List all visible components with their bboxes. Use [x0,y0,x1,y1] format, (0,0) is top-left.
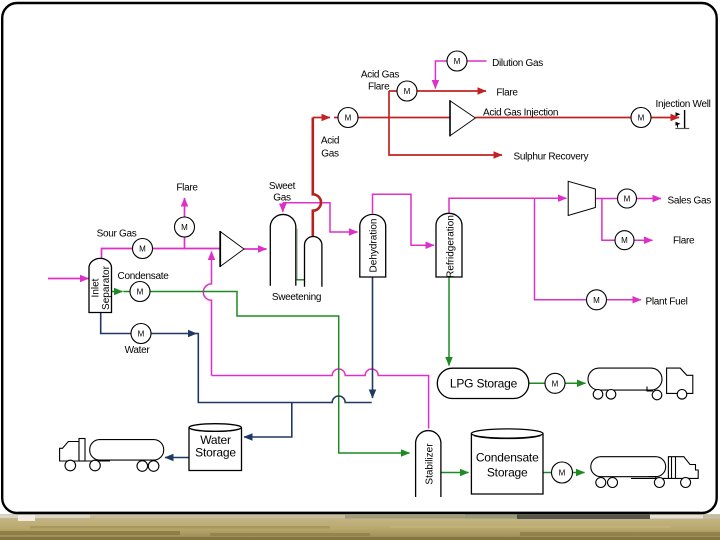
svg-text:Sweet: Sweet [269,181,296,192]
wire: branch to water storage [244,403,292,438]
wire: compressor outlet to sweetening [244,248,267,250]
wire: dilution gas line [435,61,486,89]
vessel: stabilizer [416,431,441,497]
meter M: condensate loading [552,462,573,483]
vessel: sweetening regenerator [305,237,322,287]
svg-text:Water: Water [125,345,151,356]
meter M: LPG loading [545,373,565,393]
wire: flare branch up [184,198,186,249]
wire: acid flare riser / sulphur recovery [389,91,502,155]
svg-text:Gas: Gas [321,149,339,160]
truck: LPG tanker (facing right) [588,368,693,400]
wire: sour gas line to compressor [102,249,221,262]
vessel: dehydration [360,214,386,277]
svg-text:Sour Gas: Sour Gas [97,229,137,240]
meter M: plant fuel [587,290,607,310]
wire: plant fuel branch [535,198,642,300]
wire: dehydration drain [372,277,374,398]
wire: dehydration overhead to refrigeration [373,194,435,245]
svg-text:Condensate: Condensate [476,451,539,465]
wire: recycle riser with hop over condensate [203,252,211,376]
truck: condensate tanker (facing right) [591,457,698,488]
svg-text:M: M [624,195,631,204]
wire: acid gas flare header [389,90,486,92]
svg-text:M: M [181,223,188,232]
background photo strip (grass field) [0,514,720,540]
svg-text:Dilution Gas: Dilution Gas [492,58,543,69]
wire: sales gas outlet [595,198,661,200]
svg-text:Sales Gas: Sales Gas [668,196,712,207]
compressor: sales gas [568,181,595,215]
wire: flare branch from sales line [602,199,653,241]
svg-text:Refridgeration: Refridgeration [446,215,457,278]
svg-text:Injection Well: Injection Well [656,99,711,110]
vessel: sweetening contactor [270,214,296,285]
vessel: inlet separator [89,258,112,312]
wire: amine thin line in sweetening [296,229,298,280]
svg-text:Separator: Separator [101,265,112,310]
wire: stabilizer bottoms to condensate storage [441,472,469,474]
svg-text:Plant Fuel: Plant Fuel [646,297,688,308]
compressor: acid gas injection [450,100,475,136]
svg-text:M: M [638,114,645,123]
svg-text:Acid Gas Injection: Acid Gas Injection [483,108,558,119]
wire: sweet gas overhead [283,203,358,232]
svg-text:Sulphur Recovery: Sulphur Recovery [514,152,589,163]
meter M: sales gas [618,189,637,208]
meter M: flare 2 [615,231,634,250]
meter M: sour gas [133,239,153,259]
svg-text:M: M [345,114,352,123]
wire: refrigeration bottoms to LPG storage [448,277,450,366]
svg-text:Dehydration: Dehydration [369,219,380,273]
wire: sweet gas tap down arrow [282,203,284,212]
svg-text:Gas: Gas [273,193,291,204]
meter M: water [131,324,151,344]
wire: acid gas riser (thick red) with hop over sweet gas [313,118,321,237]
svg-text:M: M [559,469,566,478]
wire: amine cross line [297,279,305,281]
svg-text:M: M [454,57,461,66]
svg-text:M: M [552,379,559,388]
wire: LPG storage to truck [529,382,586,384]
tank: LPG storage [437,368,529,398]
truck: water tanker (facing left) [60,439,164,472]
wire: condensate from separator [112,291,123,293]
svg-text:Sweetening: Sweetening [272,292,321,303]
svg-text:LPG Storage: LPG Storage [450,377,518,391]
tank: water storage [189,424,242,471]
tank: condensate storage [471,429,543,494]
wire: injection line to well [475,117,679,119]
svg-text:Inlet: Inlet [91,278,102,297]
vessel: refrigeration [436,213,462,278]
svg-text:M: M [404,87,411,96]
svg-text:Condensate: Condensate [118,271,170,282]
well: injection well symbol [675,110,689,129]
svg-text:Flare: Flare [673,236,695,247]
compressor: inlet compressor [220,231,244,267]
svg-text:Flare: Flare [496,88,518,99]
wire: acid gas to injection compressor [334,117,450,119]
wire: inlet feed (pink) [48,278,89,280]
svg-text:M: M [621,236,628,245]
svg-text:Storage: Storage [195,446,236,460]
svg-text:Acid Gas: Acid Gas [361,70,399,81]
svg-text:Storage: Storage [487,466,528,480]
wire: condensate header to stabilizer [123,292,409,454]
wire: condensate storage to truck [543,472,585,474]
wire: recycle header with hops, down to stabilizer [212,369,429,428]
svg-text:Stabilizer: Stabilizer [425,443,436,485]
svg-text:Flare: Flare [176,183,198,194]
wire: refrigeration overhead to sales compressor [449,198,566,213]
meter M: condensate [130,282,150,302]
wire: acid gas to meter [313,117,330,119]
svg-text:Flare: Flare [368,82,390,93]
svg-text:M: M [593,296,600,305]
meter M: acid gas [338,108,358,128]
svg-text:Acid: Acid [321,136,339,147]
wire: water storage to truck [165,457,189,459]
wire: water from separator [101,312,197,334]
meter M: dilution gas [447,51,467,71]
meter M: flare [175,217,195,237]
svg-text:M: M [139,245,146,254]
svg-text:M: M [138,330,145,339]
meter M: injection well [631,108,651,128]
meter M: acid gas flare [397,81,417,101]
wire: water header with hop over condensate [196,334,372,403]
svg-text:M: M [137,288,144,297]
